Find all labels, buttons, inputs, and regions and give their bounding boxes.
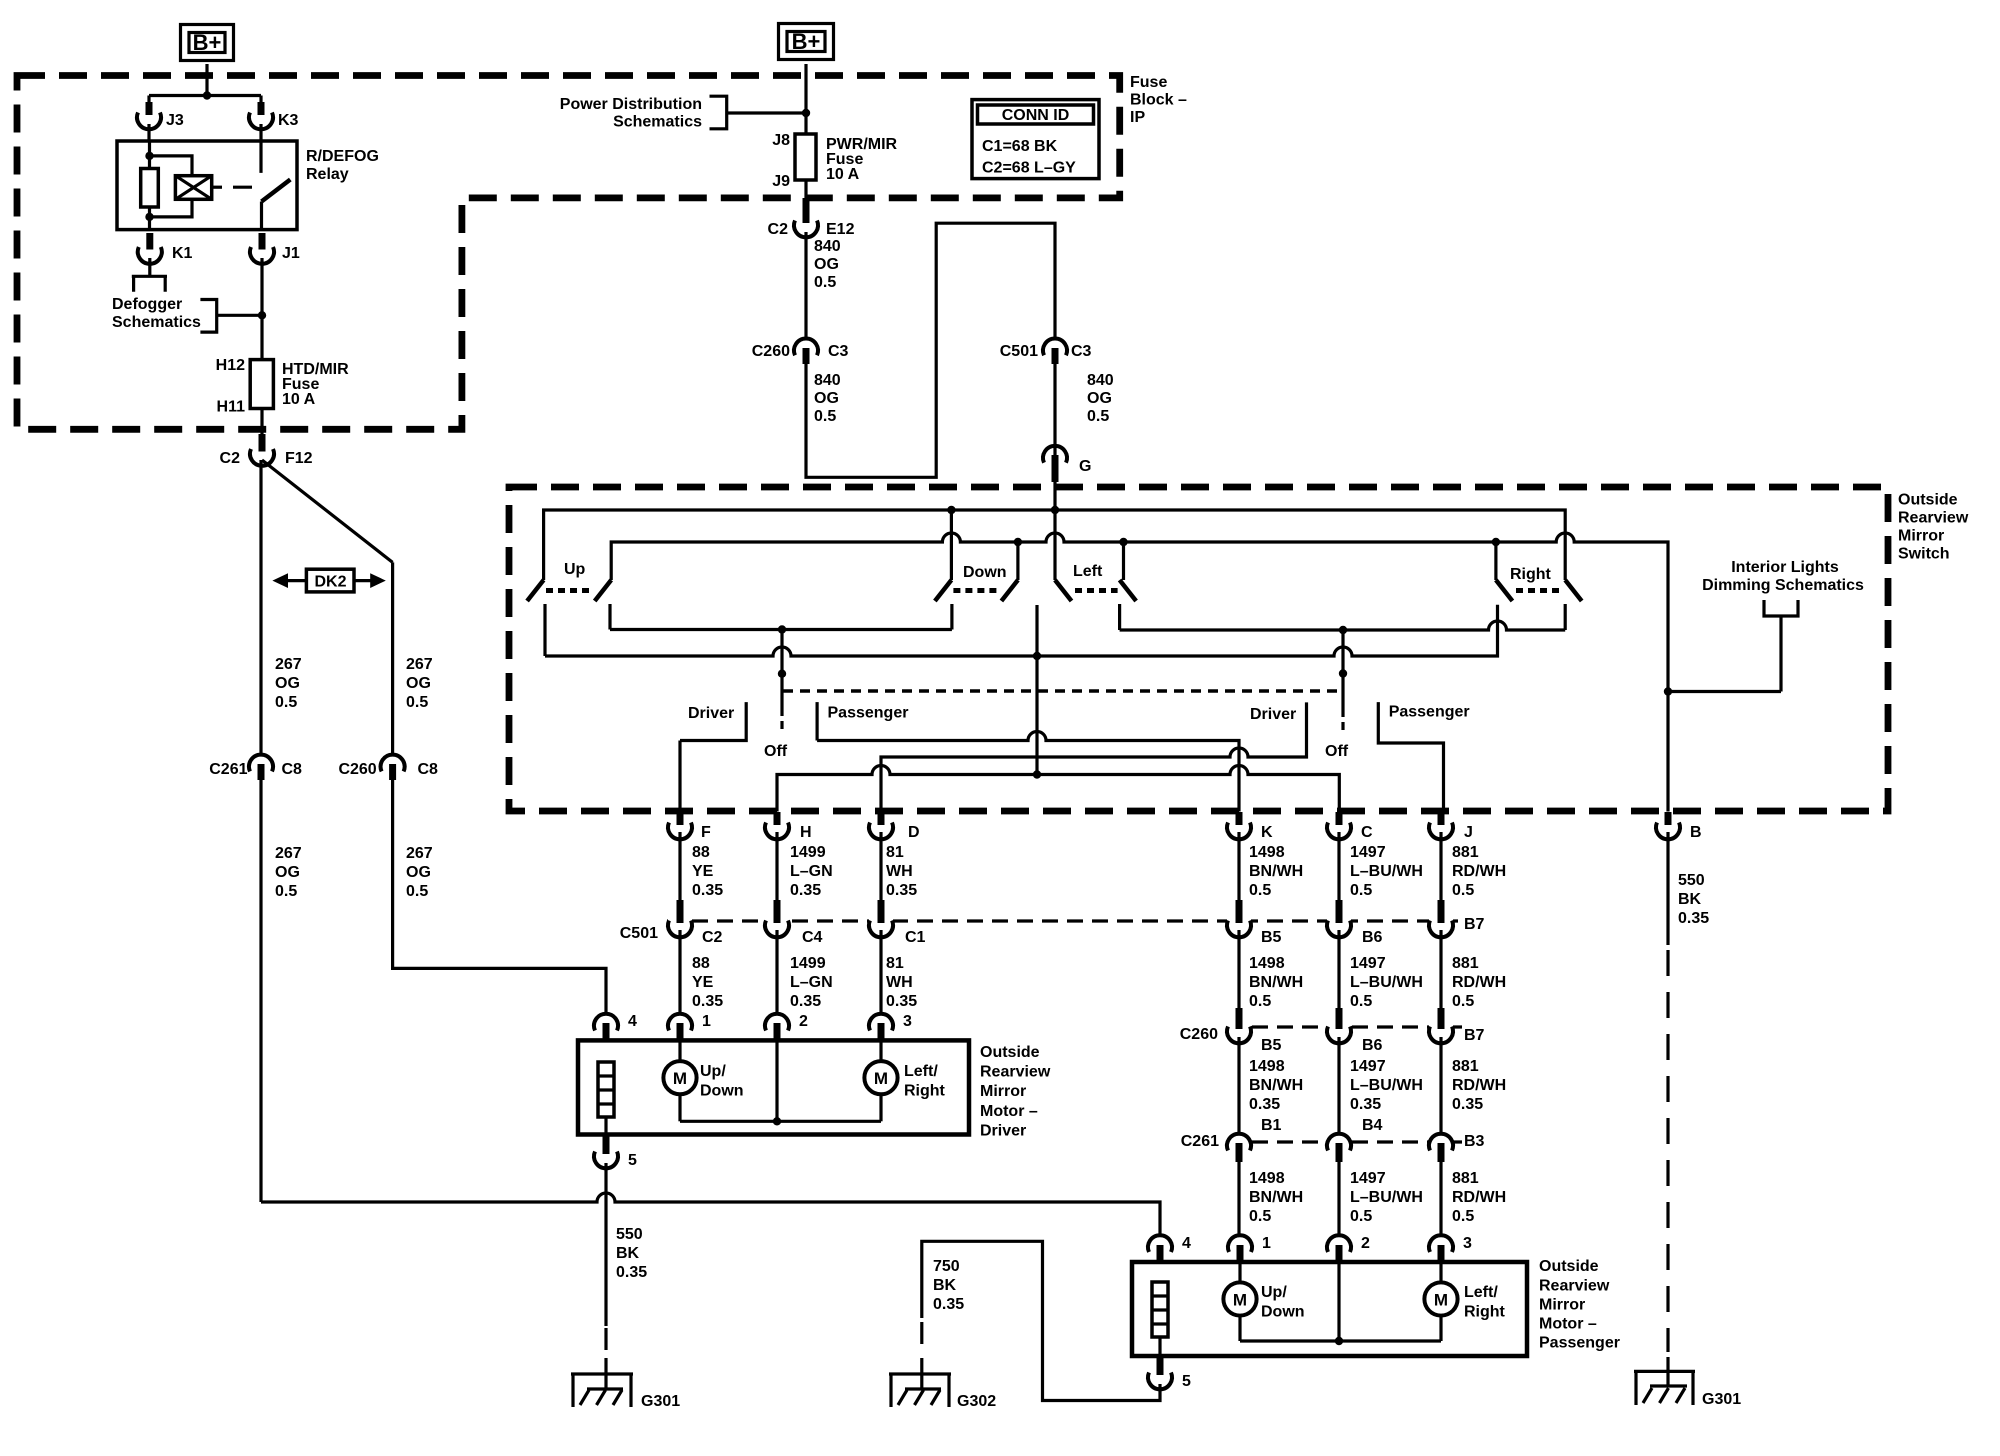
fuse block IP dashed outline bbox=[17, 76, 1120, 430]
wire label 88 YE 0.35 (F) bbox=[692, 844, 723, 899]
wire label 267 OG 0.5 (left upper) bbox=[275, 656, 302, 711]
svg-text:Off: Off bbox=[1325, 743, 1349, 760]
svg-text:C501: C501 bbox=[1000, 343, 1038, 360]
svg-text:0.5: 0.5 bbox=[814, 408, 836, 425]
wire J1 down to HTD fuse bbox=[260, 258, 263, 360]
connector G bbox=[1043, 446, 1091, 482]
svg-text:Down: Down bbox=[1261, 1304, 1305, 1321]
label Passenger left with bracket bbox=[817, 702, 908, 740]
wire inner bottom bus left bbox=[610, 628, 952, 631]
svg-text:B5: B5 bbox=[1261, 1037, 1282, 1054]
svg-text:0.5: 0.5 bbox=[814, 274, 836, 291]
connector C501 pin B6 bbox=[1327, 900, 1383, 946]
svg-text:L–GN: L–GN bbox=[790, 863, 833, 880]
svg-text:Schematics: Schematics bbox=[613, 114, 702, 131]
outside rearview mirror switch dashed box bbox=[509, 487, 1888, 811]
node driver motor bus bbox=[773, 1117, 781, 1125]
wire outer bottom bus with hops and right riser bbox=[545, 605, 1498, 656]
wire C2 pin to motor pin 1 bbox=[678, 930, 681, 1014]
wire C2/F12 diagonal to C260 branch bbox=[262, 460, 393, 755]
svg-text:0.5: 0.5 bbox=[1452, 1208, 1474, 1225]
svg-text:C: C bbox=[1361, 824, 1373, 841]
svg-text:C260: C260 bbox=[338, 761, 376, 778]
svg-text:B6: B6 bbox=[1362, 1037, 1383, 1054]
svg-text:0.5: 0.5 bbox=[1350, 993, 1372, 1010]
connector C261/C8 bbox=[209, 755, 302, 780]
node bus feed at Left bbox=[1051, 506, 1059, 514]
svg-text:K3: K3 bbox=[278, 112, 299, 129]
wire label 1498 BN/WH 0.5 (C261 drop) bbox=[1249, 1170, 1303, 1225]
svg-text:0.35: 0.35 bbox=[1452, 1096, 1483, 1113]
wire label 881 RD/WH 0.5 (B7 drop) bbox=[1452, 955, 1506, 1010]
svg-text:C261: C261 bbox=[1181, 1133, 1219, 1150]
relay coil branch wires bbox=[150, 141, 193, 230]
svg-text:CONN ID: CONN ID bbox=[1002, 107, 1070, 124]
svg-text:M: M bbox=[1434, 1291, 1448, 1310]
svg-text:1498: 1498 bbox=[1249, 1170, 1285, 1187]
label Fuse Block IP bbox=[1130, 74, 1187, 126]
svg-text:1498: 1498 bbox=[1249, 1058, 1285, 1075]
wire C4 pin to motor pin 2 bbox=[775, 930, 778, 1014]
svg-text:WH: WH bbox=[886, 863, 913, 880]
wire passenger pin 5 to G302 bbox=[922, 1241, 1160, 1400]
svg-text:Passenger: Passenger bbox=[828, 705, 909, 722]
svg-text:BN/WH: BN/WH bbox=[1249, 974, 1303, 991]
wire G into switch bbox=[1053, 478, 1056, 580]
svg-text:Fuse: Fuse bbox=[1130, 74, 1167, 91]
svg-text:C261: C261 bbox=[209, 761, 247, 778]
connector H bbox=[765, 812, 812, 841]
node Right left on inner bus bbox=[1492, 538, 1500, 546]
svg-text:Up/: Up/ bbox=[1261, 1284, 1287, 1301]
defogger bracket and wire to J1 line bbox=[200, 300, 262, 333]
wire label 840 OG 0.5 (C260 drop) bbox=[814, 372, 841, 425]
connector passenger motor pin 1 bbox=[1228, 1235, 1271, 1261]
svg-text:0.35: 0.35 bbox=[692, 993, 723, 1010]
wire C to C501 bbox=[1337, 832, 1340, 902]
wire C1 pin to motor pin 3 bbox=[879, 930, 882, 1014]
svg-text:0.5: 0.5 bbox=[406, 694, 428, 711]
svg-text:B: B bbox=[1690, 824, 1702, 841]
passenger motor breaker element bbox=[1152, 1282, 1168, 1358]
svg-text:M: M bbox=[673, 1069, 687, 1088]
node passenger motor bus bbox=[1335, 1337, 1343, 1345]
svg-text:1: 1 bbox=[702, 1013, 711, 1030]
wire passenger line left to K with hop bbox=[817, 732, 1239, 812]
svg-text:Driver: Driver bbox=[1250, 706, 1296, 723]
svg-text:B3: B3 bbox=[1464, 1133, 1485, 1150]
node off drop left bbox=[778, 625, 786, 633]
svg-text:D: D bbox=[908, 824, 920, 841]
svg-text:0.5: 0.5 bbox=[1249, 993, 1271, 1010]
svg-text:Passenger: Passenger bbox=[1539, 1334, 1620, 1351]
svg-text:Outside: Outside bbox=[1898, 492, 1958, 509]
svg-text:550: 550 bbox=[1678, 872, 1705, 889]
wire fuse to C2/F12 bbox=[260, 409, 263, 437]
wire K3 to relay bbox=[259, 124, 262, 141]
svg-text:Passenger: Passenger bbox=[1389, 704, 1470, 721]
wire C run C501 to C260 bbox=[1337, 930, 1340, 1008]
svg-text:Off: Off bbox=[764, 743, 788, 760]
wire label 840 OG 0.5 (E12 drop) bbox=[814, 238, 841, 291]
node Down right on inner bus bbox=[1014, 538, 1022, 546]
wire J run to passenger pin 3 bbox=[1439, 1162, 1442, 1236]
svg-text:G301: G301 bbox=[641, 1393, 680, 1410]
wire label 840 OG 0.5 (C501 drop) bbox=[1087, 372, 1114, 425]
svg-text:3: 3 bbox=[903, 1013, 912, 1030]
svg-text:C3: C3 bbox=[828, 343, 849, 360]
wire K run C501 to C260 bbox=[1237, 930, 1240, 1008]
label Driver left with bracket bbox=[680, 702, 746, 740]
svg-text:Up: Up bbox=[564, 561, 586, 578]
wire B+ to relay feed split bbox=[149, 64, 261, 112]
svg-text:267: 267 bbox=[275, 656, 302, 673]
svg-text:B7: B7 bbox=[1464, 1027, 1485, 1044]
svg-text:Dimming Schematics: Dimming Schematics bbox=[1702, 577, 1864, 594]
svg-text:Rearview: Rearview bbox=[1898, 510, 1969, 527]
ground G301 (left) bbox=[571, 1358, 680, 1410]
svg-text:B+: B+ bbox=[792, 29, 821, 54]
svg-text:R/DEFOG: R/DEFOG bbox=[306, 148, 379, 165]
connector K bbox=[1227, 812, 1273, 841]
svg-text:881: 881 bbox=[1452, 844, 1479, 861]
wire label 267 OG 0.5 (left lower) bbox=[275, 845, 302, 900]
svg-text:Outside: Outside bbox=[980, 1044, 1040, 1061]
svg-text:YE: YE bbox=[692, 863, 714, 880]
svg-text:Motor –: Motor – bbox=[1539, 1315, 1597, 1332]
wire label 267 OG 0.5 (right lower) bbox=[406, 845, 433, 900]
label Interior Lights Dimming Schematics bbox=[1702, 559, 1864, 594]
svg-text:1498: 1498 bbox=[1249, 844, 1285, 861]
svg-text:Mirror: Mirror bbox=[1898, 528, 1944, 545]
relay R/DEFOG box bbox=[117, 141, 297, 230]
svg-text:B6: B6 bbox=[1362, 929, 1383, 946]
svg-text:H12: H12 bbox=[216, 357, 245, 374]
wire label 881 RD/WH 0.35 (C260 drop) bbox=[1452, 1058, 1506, 1113]
label Power Distribution Schematics bbox=[560, 96, 702, 131]
wire passenger motor internal bus bbox=[1240, 1262, 1441, 1341]
svg-text:M: M bbox=[1233, 1291, 1247, 1310]
wire driver pin 5 to ground bbox=[604, 1163, 607, 1326]
switch Right bbox=[1496, 566, 1582, 630]
svg-text:BK: BK bbox=[616, 1245, 640, 1262]
relay switch contact and blade bbox=[259, 141, 263, 230]
svg-text:267: 267 bbox=[406, 845, 433, 862]
svg-text:OG: OG bbox=[275, 675, 300, 692]
svg-text:Defogger: Defogger bbox=[112, 296, 182, 313]
svg-text:G302: G302 bbox=[957, 1393, 996, 1410]
svg-text:L–BU/WH: L–BU/WH bbox=[1350, 863, 1423, 880]
svg-text:H11: H11 bbox=[217, 399, 246, 416]
wire J run C260 to C261 bbox=[1439, 1037, 1442, 1134]
wire long run to passenger motor pin 4 with hop over driver ground bbox=[261, 1193, 1160, 1236]
svg-text:4: 4 bbox=[628, 1013, 637, 1030]
wire J to C501 bbox=[1439, 832, 1442, 902]
ground G302 bbox=[889, 1358, 996, 1410]
svg-text:WH: WH bbox=[886, 974, 913, 991]
svg-text:K: K bbox=[1261, 824, 1273, 841]
svg-text:0.5: 0.5 bbox=[406, 883, 428, 900]
svg-text:1499: 1499 bbox=[790, 955, 826, 972]
svg-text:Schematics: Schematics bbox=[112, 314, 201, 331]
connector K3 bbox=[249, 102, 299, 129]
wire C2/F12 straight down (C261 branch) bbox=[259, 460, 262, 755]
svg-text:0.5: 0.5 bbox=[1452, 993, 1474, 1010]
node off right bbox=[1339, 669, 1347, 677]
svg-text:C1: C1 bbox=[905, 929, 926, 946]
svg-text:3: 3 bbox=[1463, 1235, 1472, 1252]
ground G301 (right) bbox=[1634, 1357, 1741, 1408]
label Passenger right with bracket bbox=[1378, 702, 1469, 811]
svg-text:81: 81 bbox=[886, 955, 904, 972]
svg-text:B5: B5 bbox=[1261, 929, 1282, 946]
svg-text:88: 88 bbox=[692, 955, 710, 972]
connector J3 bbox=[137, 102, 184, 129]
switch Down bbox=[935, 564, 1018, 630]
wire Down left riser bbox=[950, 510, 953, 580]
svg-text:Power Distribution: Power Distribution bbox=[560, 96, 702, 113]
motor M up/down passenger bbox=[1223, 1262, 1304, 1341]
svg-text:RD/WH: RD/WH bbox=[1452, 974, 1506, 991]
connector C501/C3 bbox=[1000, 339, 1092, 364]
svg-text:88: 88 bbox=[692, 844, 710, 861]
svg-text:E12: E12 bbox=[826, 221, 855, 238]
svg-text:840: 840 bbox=[814, 372, 841, 389]
connector C501 pin B5 bbox=[1227, 900, 1282, 946]
svg-text:10 A: 10 A bbox=[282, 391, 316, 408]
svg-text:881: 881 bbox=[1452, 1058, 1479, 1075]
switch Left bbox=[1055, 563, 1136, 630]
svg-text:0.35: 0.35 bbox=[1249, 1096, 1280, 1113]
wire J3 to relay bbox=[147, 124, 150, 141]
node Left right on inner bus bbox=[1119, 538, 1127, 546]
connector C501 pin B7 bbox=[1429, 900, 1485, 937]
svg-text:C2: C2 bbox=[220, 450, 241, 467]
wire C run C260 to C261 bbox=[1337, 1037, 1340, 1134]
svg-text:Up/: Up/ bbox=[700, 1063, 726, 1080]
svg-text:2: 2 bbox=[1361, 1235, 1370, 1252]
svg-text:0.5: 0.5 bbox=[1452, 882, 1474, 899]
svg-text:OG: OG bbox=[1087, 390, 1112, 407]
svg-text:Left/: Left/ bbox=[904, 1063, 938, 1080]
wire off stub left bbox=[780, 630, 783, 717]
wire B drop bbox=[1666, 832, 1669, 945]
svg-text:Driver: Driver bbox=[980, 1122, 1026, 1139]
motor M left/right passenger bbox=[1424, 1262, 1505, 1341]
wire B+ down to PWR fuse bbox=[804, 64, 807, 134]
power symbol B+ (left) bbox=[181, 25, 234, 61]
wire off stub right bbox=[1341, 630, 1344, 717]
connector driver motor pin 1 bbox=[668, 1013, 711, 1040]
svg-text:M: M bbox=[874, 1069, 888, 1088]
wire label 1497 L-BU/WH 0.5 (C261 drop) bbox=[1350, 1170, 1423, 1225]
wire label 1497 L-BU/WH 0.5 (B6 drop) bbox=[1350, 955, 1423, 1010]
svg-text:Relay: Relay bbox=[306, 166, 349, 183]
driver motor box bbox=[578, 1040, 969, 1134]
svg-text:0.5: 0.5 bbox=[1249, 1208, 1271, 1225]
connector C501 pin C4 bbox=[765, 900, 823, 946]
wire driver motor internal bus bbox=[680, 1040, 881, 1121]
svg-text:H: H bbox=[800, 824, 812, 841]
svg-text:OG: OG bbox=[406, 675, 431, 692]
svg-text:BK: BK bbox=[933, 1277, 957, 1294]
label Defogger Schematics bbox=[112, 296, 201, 331]
svg-text:BN/WH: BN/WH bbox=[1249, 863, 1303, 880]
wire D to C501 bbox=[879, 832, 882, 902]
svg-text:0.35: 0.35 bbox=[933, 1296, 964, 1313]
svg-text:1497: 1497 bbox=[1350, 955, 1386, 972]
node bus feed at Down bbox=[947, 506, 955, 514]
connector row C261 dashed bbox=[1227, 1140, 1462, 1143]
svg-text:0.35: 0.35 bbox=[1678, 910, 1709, 927]
svg-text:1499: 1499 bbox=[790, 844, 826, 861]
wire label 267 OG 0.5 (right upper) bbox=[406, 656, 433, 711]
connector C260/C8 bbox=[338, 755, 438, 780]
svg-text:267: 267 bbox=[406, 656, 433, 673]
svg-text:L–BU/WH: L–BU/WH bbox=[1350, 1077, 1423, 1094]
svg-text:1497: 1497 bbox=[1350, 844, 1386, 861]
connector C bbox=[1327, 812, 1373, 841]
svg-text:Down: Down bbox=[700, 1083, 744, 1100]
svg-text:C8: C8 bbox=[418, 761, 439, 778]
wire label 81 WH 0.35 (D) bbox=[886, 844, 917, 899]
svg-text:Mirror: Mirror bbox=[980, 1083, 1026, 1100]
passenger motor box bbox=[1132, 1262, 1527, 1356]
wire label 881 RD/WH 0.5 (J) bbox=[1452, 844, 1506, 899]
relay coil box with X bbox=[175, 176, 222, 200]
connector passenger motor pin 4 bbox=[1148, 1235, 1191, 1261]
svg-text:0.35: 0.35 bbox=[790, 993, 821, 1010]
wire label 1497 L-BU/WH 0.5 (C) bbox=[1350, 844, 1423, 899]
connector J1 bbox=[250, 233, 300, 264]
connector C261 pin B1 bbox=[1227, 1134, 1251, 1162]
wire K to C501 bbox=[1237, 832, 1240, 902]
svg-text:0.5: 0.5 bbox=[275, 883, 297, 900]
connector F bbox=[668, 812, 711, 841]
motor M left/right driver bbox=[864, 1040, 945, 1121]
wire label 1498 BN/WH 0.5 (B5 drop) bbox=[1249, 955, 1303, 1010]
svg-text:RD/WH: RD/WH bbox=[1452, 863, 1506, 880]
svg-text:Switch: Switch bbox=[1898, 546, 1950, 563]
connector driver motor pin 2 bbox=[765, 1013, 808, 1040]
svg-text:10 A: 10 A bbox=[826, 166, 860, 183]
svg-text:81: 81 bbox=[886, 844, 904, 861]
wire K run C260 to C261 bbox=[1237, 1037, 1240, 1134]
svg-text:C2=68 L–GY: C2=68 L–GY bbox=[982, 160, 1076, 177]
connector row C260 dashed bbox=[1227, 1025, 1462, 1028]
svg-text:J8: J8 bbox=[772, 132, 790, 149]
svg-text:C3: C3 bbox=[1071, 343, 1092, 360]
svg-text:F: F bbox=[701, 824, 711, 841]
node coil bottom bbox=[145, 213, 153, 221]
connector J bbox=[1429, 812, 1473, 841]
svg-text:840: 840 bbox=[1087, 372, 1114, 389]
connector C260 pin B6 bbox=[1327, 1008, 1383, 1054]
connector row C501 dashed bbox=[667, 919, 1462, 922]
svg-text:0.35: 0.35 bbox=[616, 1264, 647, 1281]
svg-text:L–BU/WH: L–BU/WH bbox=[1350, 974, 1423, 991]
connector C260/C3 bbox=[752, 339, 849, 364]
svg-text:BN/WH: BN/WH bbox=[1249, 1077, 1303, 1094]
svg-text:OG: OG bbox=[406, 864, 431, 881]
connector C2/E12 bbox=[768, 198, 855, 238]
svg-text:1: 1 bbox=[1262, 1235, 1271, 1252]
power symbol B+ (center) bbox=[779, 24, 834, 60]
node off left bbox=[778, 670, 786, 678]
resistor in relay bbox=[141, 169, 159, 208]
connector C261 pin B4 bbox=[1327, 1134, 1351, 1162]
svg-text:OG: OG bbox=[814, 256, 839, 273]
wire label 881 RD/WH 0.5 (C261 drop) bbox=[1452, 1170, 1506, 1225]
svg-text:Left/: Left/ bbox=[1464, 1284, 1498, 1301]
wire C260 branch down and over to driver motor pin 4 bbox=[393, 780, 606, 1014]
svg-text:B+: B+ bbox=[193, 30, 222, 55]
connector passenger motor pin 5 bbox=[1148, 1356, 1191, 1390]
svg-text:1497: 1497 bbox=[1350, 1170, 1386, 1187]
svg-text:C1=68 BK: C1=68 BK bbox=[982, 138, 1058, 155]
svg-text:5: 5 bbox=[628, 1152, 637, 1169]
svg-text:C4: C4 bbox=[802, 929, 823, 946]
svg-text:F12: F12 bbox=[285, 450, 313, 467]
svg-text:Rearview: Rearview bbox=[1539, 1277, 1610, 1294]
svg-text:C501: C501 bbox=[620, 925, 658, 942]
svg-text:L–GN: L–GN bbox=[790, 974, 833, 991]
wire label 88 YE 0.35 (C2 drop) bbox=[692, 955, 723, 1010]
motor M up/down driver bbox=[663, 1040, 743, 1121]
svg-text:YE: YE bbox=[692, 974, 714, 991]
svg-text:0.35: 0.35 bbox=[692, 882, 723, 899]
svg-text:C260: C260 bbox=[1180, 1026, 1218, 1043]
connector passenger motor pin 3 bbox=[1429, 1235, 1472, 1261]
wire D line to right Driver bracket with hop bbox=[881, 702, 1307, 811]
svg-text:Driver: Driver bbox=[688, 705, 734, 722]
connector C2/F12 bbox=[220, 434, 313, 467]
wire outer top bus bbox=[544, 510, 1566, 580]
wire H to C501 bbox=[775, 832, 778, 902]
node junction below B+ bbox=[203, 91, 211, 99]
wire label 550 BK 0.35 (B) bbox=[1678, 872, 1709, 927]
svg-text:DK2: DK2 bbox=[314, 574, 346, 591]
svg-text:Mirror: Mirror bbox=[1539, 1296, 1585, 1313]
switch Up bbox=[527, 561, 611, 656]
node B wire tap bbox=[1664, 687, 1672, 695]
svg-text:4: 4 bbox=[1182, 1235, 1191, 1252]
label Outside Rearview Mirror Motor Driver bbox=[980, 1044, 1051, 1139]
connector driver motor pin 5 bbox=[594, 1136, 637, 1169]
svg-text:0.35: 0.35 bbox=[886, 882, 917, 899]
svg-text:840: 840 bbox=[814, 238, 841, 255]
svg-text:0.5: 0.5 bbox=[1249, 882, 1271, 899]
wire C261 branch down to long run bbox=[259, 780, 262, 1202]
relay mechanical dash bbox=[233, 186, 252, 189]
svg-text:0.35: 0.35 bbox=[886, 993, 917, 1010]
svg-text:B7: B7 bbox=[1464, 916, 1485, 933]
splice DK2 symbol bbox=[272, 569, 385, 592]
svg-text:OG: OG bbox=[814, 390, 839, 407]
svg-text:0.35: 0.35 bbox=[790, 882, 821, 899]
svg-text:Block –: Block – bbox=[1130, 92, 1187, 109]
svg-text:0.5: 0.5 bbox=[1087, 408, 1109, 425]
wire C260/C3 loop over to C501 riser bbox=[806, 223, 1055, 477]
label Outside Rearview Mirror Motor Passenger bbox=[1539, 1258, 1620, 1351]
svg-text:750: 750 bbox=[933, 1258, 960, 1275]
wire Left right riser bbox=[1122, 542, 1125, 580]
svg-text:Interior Lights: Interior Lights bbox=[1731, 559, 1839, 576]
svg-text:BN/WH: BN/WH bbox=[1249, 1189, 1303, 1206]
connector driver motor pin 4 bbox=[594, 1013, 637, 1040]
CONN ID table bbox=[972, 100, 1099, 179]
node defogger tap bbox=[258, 311, 266, 319]
